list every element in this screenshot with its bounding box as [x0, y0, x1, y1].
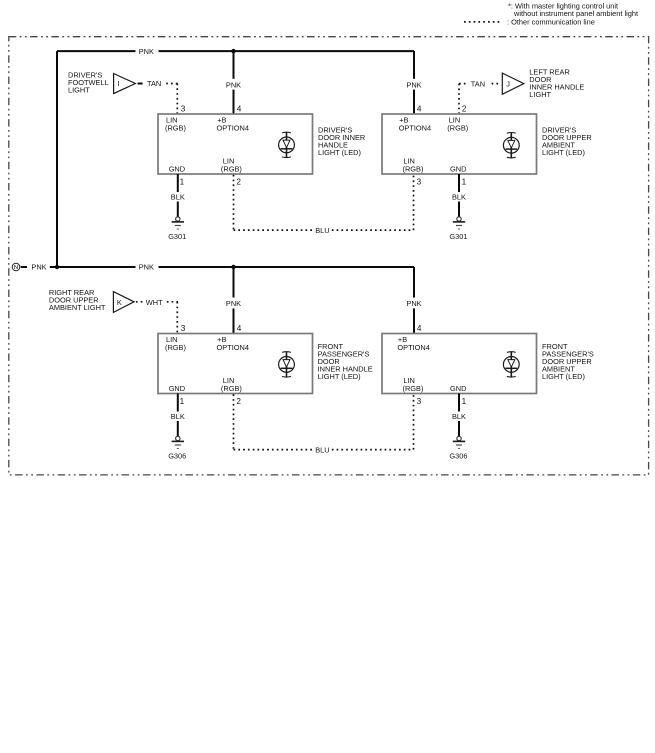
- wire: TAN dotted drop to box1 pin 3: [176, 84, 178, 115]
- svg-text:3: 3: [181, 324, 186, 333]
- svg-text:BLK: BLK: [171, 412, 185, 421]
- connector J: left rear door inner handle light: [459, 68, 584, 99]
- junction: left trunk meets lower bus: [55, 265, 59, 269]
- svg-text:K: K: [117, 298, 122, 307]
- svg-text:N: N: [14, 265, 18, 271]
- svg-text:4: 4: [417, 105, 422, 114]
- svg-text:4: 4: [237, 324, 242, 333]
- legend: other communication line sample: [464, 18, 595, 27]
- svg-text:: Other communication line: : Other communication line: [507, 18, 595, 27]
- svg-text:LIGHT (LED): LIGHT (LED): [542, 148, 585, 157]
- svg-text:LIGHT: LIGHT: [68, 85, 90, 94]
- svg-text:2: 2: [236, 397, 241, 406]
- svg-text:WHT: WHT: [146, 298, 163, 307]
- svg-text:J: J: [506, 79, 510, 88]
- svg-text:(RGB): (RGB): [221, 384, 242, 393]
- node N: [12, 263, 20, 271]
- wire: BLK box1 pin 1 to G301: [171, 174, 185, 217]
- svg-text:BLK: BLK: [171, 193, 185, 202]
- wire: PNK drop to box4 pin 4: [413, 267, 415, 298]
- wire: BLK box4 pin 1 to G306: [452, 394, 466, 437]
- ground G301 (right): [449, 217, 467, 241]
- svg-text:3: 3: [181, 105, 186, 114]
- svg-text:PNK: PNK: [226, 80, 241, 89]
- svg-text:(RGB): (RGB): [165, 123, 186, 132]
- ground G301 (left): [168, 217, 186, 241]
- wire: BLK box2 pin 1 to G301: [452, 174, 466, 217]
- box U2: DRIVER'S DOOR UPPER AMBIENT LIGHT (LED): [382, 105, 592, 187]
- svg-text:PNK: PNK: [139, 47, 154, 56]
- svg-text:1: 1: [462, 177, 467, 186]
- svg-text:LIGHT (LED): LIGHT (LED): [318, 148, 361, 157]
- svg-text:3: 3: [417, 397, 422, 406]
- legend note: asterisk definition: [508, 2, 638, 19]
- wire: BLU dotted link box3 pin 2 to box4 pin 3: [234, 394, 414, 454]
- svg-text:BLK: BLK: [452, 193, 466, 202]
- svg-text:4: 4: [417, 324, 422, 333]
- svg-text:GND: GND: [450, 384, 466, 393]
- svg-text:OPTION4: OPTION4: [399, 123, 431, 132]
- svg-text:PNK: PNK: [31, 263, 46, 272]
- LED lamp symbol: [503, 352, 519, 377]
- svg-text:OPTION4: OPTION4: [217, 123, 249, 132]
- ground G306 (left): [168, 436, 186, 460]
- connector I: driver's footwell light: [68, 71, 178, 95]
- junction: lower bus to front passenger inner handle light: [231, 265, 235, 269]
- box U1: DRIVER'S DOOR INNER HANDLE LIGHT (LED): [158, 105, 365, 187]
- svg-text:GND: GND: [169, 165, 185, 174]
- svg-text:I: I: [118, 79, 120, 88]
- option boundary (dash-dot frame): [9, 37, 649, 475]
- svg-text:(RGB): (RGB): [165, 343, 186, 352]
- svg-text:G301: G301: [449, 232, 467, 241]
- svg-text:3: 3: [417, 177, 422, 186]
- svg-text:LIGHT (LED): LIGHT (LED): [318, 372, 361, 381]
- svg-text:(RGB): (RGB): [403, 165, 424, 174]
- wire: TAN dotted drop to box2 pin 2: [458, 84, 460, 114]
- svg-text:PNK: PNK: [406, 299, 421, 308]
- svg-text:OPTION4: OPTION4: [397, 343, 429, 352]
- junction: upper bus to driver's door inner handle light: [231, 49, 235, 53]
- svg-text:TAN: TAN: [471, 79, 485, 88]
- LED lamp symbol: [503, 133, 519, 158]
- svg-text:OPTION4: OPTION4: [217, 343, 249, 352]
- wire: PNK drop to box3 pin 4: [233, 267, 235, 298]
- svg-text:LIGHT (LED): LIGHT (LED): [542, 372, 585, 381]
- svg-text:G306: G306: [168, 452, 186, 461]
- svg-text:BLU: BLU: [315, 226, 329, 235]
- svg-text:AMBIENT LIGHT: AMBIENT LIGHT: [49, 303, 106, 312]
- svg-text:1: 1: [180, 177, 185, 186]
- connector K: right rear door upper ambient light: [49, 288, 178, 312]
- wire: PNK drop to box2 pin 4: [413, 51, 415, 79]
- svg-text:2: 2: [462, 105, 467, 114]
- svg-text:LIGHT: LIGHT: [529, 90, 551, 99]
- svg-text:PNK: PNK: [139, 263, 154, 272]
- LED lamp symbol: [279, 132, 295, 157]
- svg-text:PNK: PNK: [226, 299, 241, 308]
- svg-text:2: 2: [236, 177, 241, 186]
- svg-text:GND: GND: [450, 165, 466, 174]
- svg-text:BLK: BLK: [452, 412, 466, 421]
- svg-text:G306: G306: [449, 452, 467, 461]
- svg-text:(RGB): (RGB): [447, 123, 468, 132]
- svg-text:1: 1: [180, 397, 185, 406]
- wire: PNK horizontal bus (lower): [50, 266, 136, 268]
- svg-text:PNK: PNK: [406, 80, 421, 89]
- wire: PNK drop to box1 pin 4: [233, 51, 235, 79]
- svg-text:4: 4: [237, 105, 242, 114]
- svg-text:1: 1: [462, 397, 467, 406]
- wire: PNK horizontal bus (upper): [57, 50, 136, 52]
- wire: BLU dotted link box1 pin 2 to box2 pin 3: [234, 175, 414, 235]
- wire: WHT dotted drop to box3 pin 3: [176, 302, 178, 334]
- svg-text:G301: G301: [168, 232, 186, 241]
- wire: dash from node N: [21, 266, 27, 268]
- svg-text:BLU: BLU: [315, 445, 329, 454]
- wire: left vertical trunk: [56, 51, 58, 267]
- box U4: FRONT PASSENGER'S DOOR UPPER AMBIENT LIGHT (LED): [382, 324, 594, 406]
- svg-text:TAN: TAN: [147, 79, 161, 88]
- wire: BLK box3 pin 1 to G306: [171, 394, 185, 437]
- LED lamp symbol: [279, 352, 295, 377]
- box U3: FRONT PASSENGER'S DOOR INNER HANDLE LIGHT (LED): [158, 324, 373, 406]
- svg-text:(RGB): (RGB): [403, 384, 424, 393]
- svg-text:GND: GND: [169, 384, 185, 393]
- svg-text:(RGB): (RGB): [221, 165, 242, 174]
- ground G306 (right): [449, 436, 467, 460]
